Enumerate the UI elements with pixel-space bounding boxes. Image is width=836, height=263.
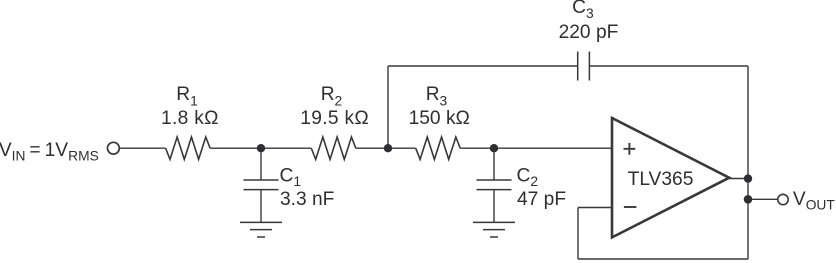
wire C1 upper vertical xyxy=(260,148,262,180)
ground for C2 xyxy=(473,222,515,237)
capacitor C1 plates xyxy=(244,180,279,190)
svg-text:220 pF: 220 pF xyxy=(559,22,619,43)
resistor R2 xyxy=(311,137,356,159)
ground for C1 xyxy=(240,222,282,237)
wire op-amp output xyxy=(729,178,748,180)
svg-text:C2: C2 xyxy=(517,165,539,189)
svg-text:3.3 nF: 3.3 nF xyxy=(280,189,334,210)
svg-text:150 kΩ: 150 kΩ xyxy=(409,108,470,129)
pin + symbol xyxy=(624,143,636,155)
wire inverting input xyxy=(578,207,612,209)
wire top feedback left of C3 xyxy=(388,65,578,67)
svg-text:47 pF: 47 pF xyxy=(517,189,566,210)
wire feedback left vertical xyxy=(577,208,579,260)
svg-text:R2: R2 xyxy=(321,84,343,109)
op-amp U1 TLV365 triangle xyxy=(612,118,729,237)
svg-text:19.5 kΩ: 19.5 kΩ xyxy=(300,108,369,129)
wire C2 lower vertical xyxy=(493,190,495,222)
wire feedback bottom xyxy=(578,258,748,260)
svg-text:C1: C1 xyxy=(280,165,302,189)
node junction output/C3 xyxy=(744,174,752,182)
node junction output/VOUT xyxy=(744,195,753,204)
node junction R2/R3/C3 xyxy=(384,144,392,152)
wire feedback riser at node B xyxy=(387,66,389,148)
svg-text:VIN=1VRMS: VIN=1VRMS xyxy=(0,140,99,164)
capacitor C3 plates xyxy=(578,52,590,81)
capacitor C2 plates xyxy=(477,180,512,190)
wire C2 upper vertical xyxy=(493,148,495,180)
svg-text:R3: R3 xyxy=(426,84,448,109)
wire R1 to R2 xyxy=(210,147,311,149)
wire input lead xyxy=(120,147,166,149)
pin - symbol xyxy=(624,206,637,208)
wire VOUT tap xyxy=(748,198,777,200)
wire C1 lower vertical xyxy=(260,190,262,222)
svg-text:C3: C3 xyxy=(572,0,594,21)
wire R2 to R3 xyxy=(356,147,416,149)
input terminal xyxy=(108,142,120,154)
svg-text:R1: R1 xyxy=(176,84,198,109)
resistor R1 xyxy=(166,137,211,159)
wire R3 to op-amp + input xyxy=(460,147,612,149)
svg-text:TLV365: TLV365 xyxy=(628,169,694,190)
svg-text:1.8 kΩ: 1.8 kΩ xyxy=(161,108,219,129)
node junction R1/C1 xyxy=(257,144,265,152)
node junction R3/C2 xyxy=(490,144,498,152)
wire top feedback right of C3 xyxy=(589,65,748,67)
wire right vertical bus xyxy=(747,66,749,259)
output terminal xyxy=(778,194,788,204)
svg-text:VOUT: VOUT xyxy=(793,189,836,213)
resistor R3 xyxy=(416,137,461,159)
